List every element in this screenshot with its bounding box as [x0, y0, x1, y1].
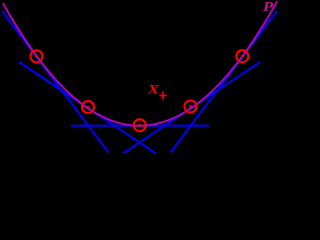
svg-text:X: X	[146, 83, 160, 96]
svg-text:P: P	[263, 0, 274, 15]
